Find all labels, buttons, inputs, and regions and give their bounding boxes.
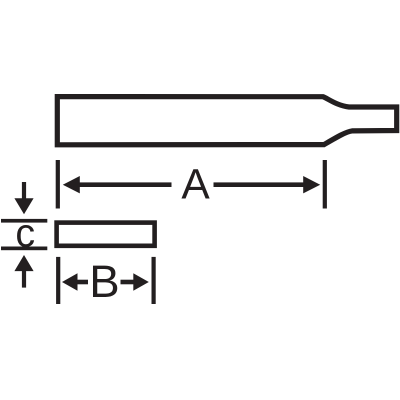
dimension A: right arrowhead (303, 176, 320, 193)
file body outline (flat file profile with tang) (57, 97, 396, 145)
dimension c: top extension line (1, 219, 47, 223)
dimension A: left shaft segment (79, 182, 172, 187)
dimension A: right extension tick (323, 160, 327, 209)
dimension B: left extension tick (56, 257, 60, 304)
dimension B: right arrowhead (133, 273, 149, 290)
dimension c: upper arrowhead (14, 198, 33, 214)
dimension A: right shaft segment (214, 182, 305, 187)
svg-text:A: A (181, 162, 210, 209)
dimension c: lower arrowhead (14, 255, 33, 271)
dimension B: left arrowhead (62, 273, 78, 290)
cross-section rectangle (file blade section) (57, 223, 155, 246)
dimension c: upper arrow (pointing down) shaft (22, 182, 26, 199)
dimension c: lower arrow (pointing up) shaft (22, 271, 26, 288)
dimension B: right shaft segment (121, 280, 135, 285)
svg-text:B: B (89, 256, 119, 307)
dimension B: left shaft segment (77, 280, 89, 285)
dimension B: right extension tick (152, 257, 156, 304)
dimension c: bottom extension line (1, 247, 47, 251)
dimension A: left arrowhead (63, 176, 80, 193)
dimension A: left extension tick (56, 160, 60, 209)
